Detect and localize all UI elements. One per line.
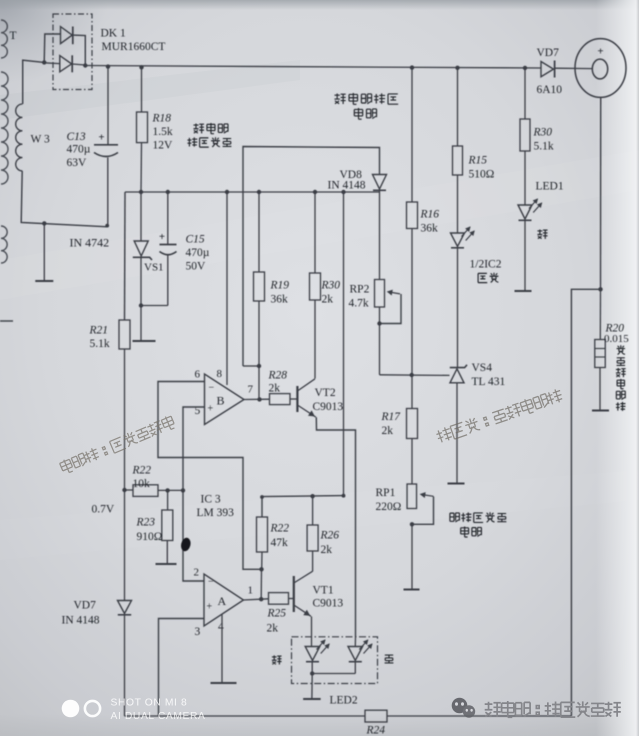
ground : VS4 [456, 383, 458, 483]
LED2 green half [354, 637, 356, 647]
svg-text:LM 393: LM 393 [197, 507, 235, 519]
wire : DK1 upper branch right [73, 35, 86, 66]
svg-text:VS1: VS1 [144, 262, 164, 274]
svg-text:+: + [598, 47, 604, 58]
label : charge current sampling (vertical) [617, 345, 625, 354]
svg-text:C15: C15 [186, 234, 205, 246]
wire : B non-inverting input [183, 407, 205, 581]
svg-text:8: 8 [217, 368, 223, 380]
mark : ink blob [180, 537, 192, 552]
node : R17 column tap [410, 373, 414, 377]
node : DK1 output junction [83, 63, 87, 67]
resistor R17 2k [411, 375, 413, 409]
diode DK1 upper half [61, 27, 73, 44]
svg-text:R23: R23 [136, 517, 156, 529]
node : C13 top [106, 64, 110, 68]
node : C15 top [166, 190, 170, 194]
diode DK1 MUR1660CT (dash-dot box) [53, 14, 92, 90]
svg-text:470µ: 470µ [67, 144, 91, 156]
svg-text:5.1k: 5.1k [534, 141, 554, 153]
svg-text:6: 6 [195, 369, 201, 381]
svg-text:R18: R18 [152, 113, 172, 125]
svg-text:+: + [208, 404, 214, 415]
node : VS1 top [139, 190, 143, 194]
svg-text:3: 3 [195, 626, 201, 638]
svg-text:4.7k: 4.7k [349, 298, 369, 310]
wire : left page bleed coil fragments [1, 20, 8, 263]
resistor R30 5.1k [524, 68, 526, 119]
svg-text:RP1: RP1 [376, 487, 396, 499]
svg-text:10k: 10k [133, 478, 151, 490]
svg-text:IN 4148: IN 4148 [328, 180, 366, 192]
svg-text:2k: 2k [269, 383, 281, 395]
node : R19 top [257, 190, 261, 194]
svg-text:W 3: W 3 [31, 134, 51, 146]
node : A output node [259, 597, 263, 601]
svg-text:2k: 2k [321, 544, 333, 556]
diode VD7 IN4148 (lower left) [118, 601, 132, 614]
wire : B output [244, 398, 270, 400]
svg-text:R30: R30 [321, 280, 341, 292]
svg-text:220Ω: 220Ω [376, 501, 402, 513]
watermark : diagonal right [435, 388, 564, 445]
watermark : camera (SHOT ON MI 8) [62, 700, 80, 718]
label : lower voltage sampling resistor [450, 513, 460, 522]
wire : 12V drop column [343, 192, 345, 496]
shunt-regulator VS4 TL431 [450, 365, 467, 368]
svg-text:470µ: 470µ [186, 247, 210, 259]
svg-text:+: + [159, 232, 165, 243]
LED1 red [518, 205, 532, 219]
svg-text:−: − [208, 577, 214, 588]
node : R30(5.1k) top [523, 66, 527, 70]
resistor R22 10k [125, 489, 134, 491]
svg-text:2k: 2k [322, 294, 334, 306]
transistor VT1 C9013 [293, 576, 295, 612]
node : pin8 bus tap [225, 190, 229, 194]
node : B output junction [257, 397, 261, 401]
opto-LED 1/2 IC2 [451, 233, 465, 247]
node : C13 bottom corner [105, 224, 109, 228]
svg-text:510Ω: 510Ω [469, 169, 495, 181]
wire : reference node (RP2-R17-VS4) [380, 374, 450, 377]
svg-text:R25: R25 [267, 608, 287, 620]
watermark : wechat logo + account name [452, 698, 475, 718]
svg-text:R30: R30 [533, 127, 553, 139]
svg-text:0.015: 0.015 [604, 333, 629, 345]
wire : B inverting input loop [158, 382, 262, 570]
svg-text:+: + [207, 602, 213, 613]
svg-text:R28: R28 [268, 370, 288, 382]
ground : IC3 pin 4 [221, 614, 223, 682]
node : rail corners [260, 495, 264, 499]
svg-text:7: 7 [248, 384, 254, 396]
wire : main top rail [85, 66, 541, 69]
diode VD7 6A10 [541, 62, 554, 77]
node : VS1/C15 bottom junction [139, 303, 143, 307]
svg-text:B: B [217, 394, 225, 408]
diode DK1 lower half [44, 62, 60, 65]
watermark : diagonal left [59, 415, 176, 475]
svg-text:R22: R22 [132, 465, 152, 477]
connector : output jack [575, 39, 626, 98]
wire : left edge fragment [0, 320, 13, 322]
svg-text:12V: 12V [153, 140, 174, 152]
transistor VT2 C9013 [296, 386, 298, 412]
svg-text:2k: 2k [267, 623, 279, 635]
op-amp U1A (IC3 LM393 section A) [204, 574, 244, 626]
svg-text:R16: R16 [420, 209, 440, 221]
resistor R20 0.015 (current shunt) [599, 289, 601, 339]
zener VS1 IN4742 [140, 192, 142, 241]
resistor R22 47k [257, 517, 268, 552]
inductor W3 [16, 104, 23, 171]
svg-text:47k: 47k [271, 537, 289, 549]
resistor R19 36k [258, 192, 260, 272]
svg-text:4: 4 [218, 621, 224, 633]
svg-text:+: + [99, 133, 105, 144]
resistor R15 510ohm [457, 68, 459, 146]
resistor R28 2k [270, 394, 291, 405]
resistor R24 [365, 710, 387, 722]
wire : emitter rail [262, 496, 344, 517]
node : R18 top [139, 65, 143, 69]
svg-text:AI DUAL CAMERA: AI DUAL CAMERA [111, 711, 206, 722]
potentiometer RP1 220ohm [407, 484, 417, 509]
svg-text:T: T [10, 30, 17, 42]
svg-text:MUR1660CT: MUR1660CT [102, 41, 166, 53]
potentiometer RP2 4.7k [379, 192, 381, 280]
svg-text:C9013: C9013 [313, 598, 344, 610]
svg-text:VT2: VT2 [315, 387, 336, 399]
node : R30 top [313, 190, 317, 194]
svg-text:VD7: VD7 [537, 47, 560, 59]
resistor R30 2k [314, 192, 316, 273]
svg-text:VD7: VD7 [74, 600, 97, 612]
node : R23 top [165, 488, 169, 492]
node : R22 10k left [122, 488, 126, 492]
node : divider link join [257, 364, 261, 368]
diode VD8 IN4148 [373, 175, 387, 190]
node : R20 tap [598, 287, 602, 291]
capacitor C13 470u 63V [107, 67, 109, 144]
svg-text:C13: C13 [67, 131, 86, 143]
svg-text:R26: R26 [320, 530, 340, 542]
svg-text:R22: R22 [270, 523, 290, 535]
svg-text:LED1: LED1 [536, 181, 564, 193]
svg-text:1/2IC2: 1/2IC2 [470, 259, 502, 271]
svg-text:IN 4148: IN 4148 [62, 615, 100, 627]
svg-text:C9013: C9013 [313, 401, 344, 413]
svg-text:LED2: LED2 [330, 695, 358, 707]
node : transformer bottom junction [42, 221, 46, 225]
resistor R16 36k [411, 68, 413, 202]
op-amp U1B (IC3 LM393 section B) [205, 374, 245, 425]
wire : bottom bus [125, 715, 366, 717]
svg-text:36k: 36k [271, 294, 289, 306]
svg-text:63V: 63V [67, 157, 88, 169]
node : A output feedback junction [259, 567, 263, 571]
wire : right rail [600, 97, 602, 289]
node : R15 top [455, 66, 459, 70]
svg-text:R24: R24 [366, 725, 386, 737]
wire : W3 bottom lead [21, 171, 108, 227]
svg-text:5.1k: 5.1k [90, 338, 110, 350]
wire : left rail upper [124, 192, 127, 320]
svg-text:910Ω: 910Ω [137, 531, 163, 543]
svg-text:R15: R15 [468, 155, 488, 167]
LED2 red half [305, 647, 320, 661]
svg-text:VS4: VS4 [472, 362, 493, 374]
svg-text:DK 1: DK 1 [101, 28, 126, 40]
svg-text:R21: R21 [89, 325, 109, 337]
svg-text:RP2: RP2 [350, 284, 370, 296]
ground : RP1 [411, 524, 413, 588]
resistor R26 2k [312, 496, 314, 525]
wire : DK1 upper branch left [44, 34, 60, 62]
svg-text:2k: 2k [382, 425, 394, 437]
node : R26 top [310, 494, 314, 498]
node : LED2 cathode junction [310, 671, 314, 675]
node : pin5/pin2 tap [181, 488, 185, 492]
wire : divider link (y147) [243, 147, 380, 367]
svg-text:A: A [218, 594, 227, 608]
ground : transformer bottom [43, 223, 45, 280]
svg-text:50V: 50V [186, 261, 207, 273]
svg-text:VT1: VT1 [313, 585, 334, 597]
node : DK1 anode junction [42, 60, 46, 64]
svg-text:0.7V: 0.7V [92, 504, 115, 516]
svg-text:−: − [209, 383, 215, 394]
svg-text:IC 3: IC 3 [201, 494, 221, 506]
ground : LED2 [311, 674, 313, 699]
label : upper voltage sampling resistor [334, 93, 345, 103]
resistor R21 5.1k [119, 320, 130, 349]
svg-text:TL 431: TL 431 [472, 376, 506, 388]
capacitor C15 470u 50V [167, 192, 169, 244]
ground : LED1 return bar [524, 221, 526, 290]
wire : 12V bus [125, 191, 380, 193]
resistor R25 2k [269, 593, 289, 605]
ground : VS1/C15 [140, 306, 142, 341]
svg-text:1.5k: 1.5k [153, 126, 173, 138]
svg-text:IN 4742: IN 4742 [70, 236, 110, 250]
svg-text:36k: 36k [421, 223, 439, 235]
LED2 dual indicator (dash-dot box) [292, 637, 378, 684]
wire : VS1-C15 bottom link [141, 305, 168, 307]
wire : A output [244, 599, 269, 600]
svg-text:1: 1 [248, 585, 254, 597]
svg-text:2: 2 [194, 567, 200, 579]
resistor R18 1.5k [141, 67, 143, 112]
resistor R23 910ohm [167, 490, 169, 510]
svg-text:SHOT ON MI 8: SHOT ON MI 8 [111, 698, 188, 709]
label : low-voltage-side auxiliary supply [193, 123, 204, 133]
wire : W3 top lead [23, 60, 45, 104]
node : 12V drop column top [341, 190, 345, 194]
node : R16 top [410, 65, 414, 69]
wire : IC3 pin 8 supply [226, 192, 228, 385]
wire : A non-inverting input loop [159, 619, 205, 717]
svg-text:6A10: 6A10 [537, 84, 563, 96]
wire : left rail middle [124, 349, 126, 600]
svg-text:R19: R19 [270, 280, 290, 292]
wire : left rail lower [124, 616, 126, 717]
svg-text:R17: R17 [381, 411, 402, 423]
